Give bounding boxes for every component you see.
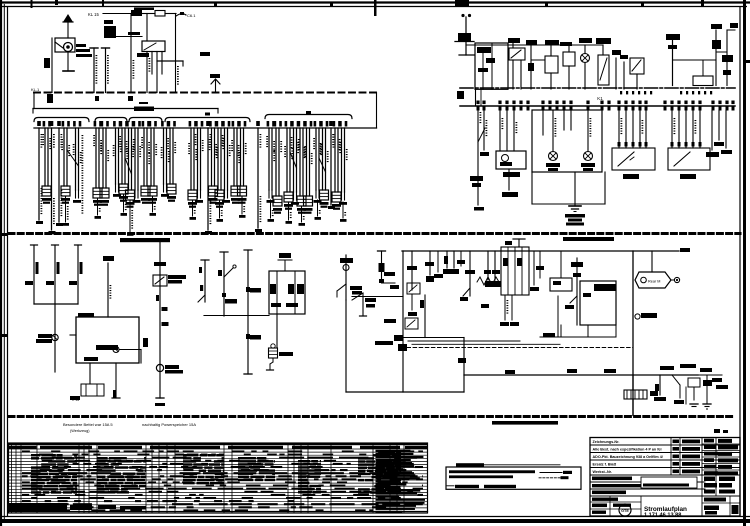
svg-text:nachhaltig Powerspeicher 15A: nachhaltig Powerspeicher 15A (142, 422, 196, 427)
wire A1 drop to bus (51, 38, 53, 93)
table column line (300, 443, 302, 513)
wire harness pair P6 (113, 121, 116, 127)
pin tick (664, 106, 667, 111)
table column line (20, 443, 22, 513)
pin tick (506, 106, 509, 111)
Q1 labels (350, 286, 362, 290)
B2 top tee (513, 238, 525, 240)
module K1 bottom pin rail (460, 105, 735, 107)
node A B feed dots (461, 14, 464, 17)
separator dashed line (bottom) (9, 415, 733, 418)
pin tick (685, 106, 688, 111)
wire harness pair P19 (232, 121, 235, 127)
vertical main right x633 (632, 251, 634, 415)
wire harness pair P10 (142, 121, 145, 127)
svg-text:Ersatz f. Blatt: Ersatz f. Blatt (593, 463, 617, 467)
relay box A3 (269, 271, 305, 314)
table column line (231, 443, 233, 513)
wire from A2 right to down (119, 349, 141, 351)
title block column lines (670, 438, 672, 476)
table column line (88, 443, 90, 513)
lamp H3 (549, 152, 558, 161)
table column line (396, 443, 398, 513)
wire A drop (465, 17, 467, 41)
wire rail to motor (651, 251, 653, 272)
wire vertical feed x131 (130, 14, 132, 93)
B2 bottom wires down (504, 295, 506, 320)
wire harness single S2 (50, 121, 54, 126)
wire harness pair P25 (298, 121, 301, 127)
pin tick (477, 106, 480, 111)
wire continuation P30 (342, 202, 344, 218)
switch S21 (223, 252, 225, 316)
second transistor Q2 (424, 295, 426, 338)
ticks below top rail (620, 91, 622, 94)
wire harness pair P23 (285, 121, 288, 127)
svg-text:ADO-Pkt. Bauzeichnung 938 a Oe: ADO-Pkt. Bauzeichnung 938 a Oelfilm 4/ (593, 455, 663, 459)
parts list table (9, 443, 428, 513)
wire continuation P23 (288, 202, 290, 220)
pin tick (483, 106, 486, 111)
resistor zigzag R20 (477, 277, 499, 285)
distribution rail Zuendung (33, 108, 218, 110)
table column line (307, 443, 309, 513)
pin tick (527, 106, 530, 111)
lamp H2 (581, 54, 590, 63)
S22 wire end tee (244, 373, 252, 375)
wire link diag 1 (67, 150, 79, 166)
svg-text:(Werkzeug): (Werkzeug) (70, 429, 90, 433)
connector on P8 (126, 190, 135, 200)
wire harness pair P11 (149, 121, 152, 127)
connector group bracket 1 (34, 118, 89, 122)
wire bus right edge (376, 93, 378, 129)
table column line (403, 443, 405, 513)
note text right (492, 421, 558, 425)
dashed wire (sensor line) (407, 347, 633, 349)
legend box (446, 467, 581, 489)
horizontal feed wire top right (466, 44, 603, 46)
rail bottom line (34, 127, 377, 129)
wires below B3 loop (560, 325, 562, 337)
title block mid cells text (673, 440, 680, 444)
switch S21a at T1 bottom (198, 295, 205, 302)
table column line (389, 443, 391, 513)
wire bundle b2 (412, 343, 560, 345)
module K1 top rail (dash-dot) (460, 87, 735, 89)
wire tails P21 (268, 190, 270, 198)
wire harness pair P15 (195, 121, 198, 127)
component S9 (715, 30, 717, 86)
diode V5 (703, 380, 712, 386)
pin tick (732, 106, 735, 111)
wire continuation P25 (301, 206, 303, 222)
component cluster N1 (615, 58, 617, 89)
wire tails P18 (224, 190, 226, 198)
connector circle X12 (52, 334, 58, 340)
svg-text:K1: K1 (597, 96, 603, 101)
wire harness pair P20 (238, 121, 241, 127)
component R5 (693, 76, 713, 86)
pin tick (639, 106, 642, 111)
relay on loop left (405, 318, 418, 329)
wire x633 lower tail (632, 399, 634, 416)
rail drop d5 pair (487, 251, 489, 280)
wire tails P30 (341, 192, 343, 200)
table column line (78, 443, 80, 513)
ground G2 (703, 403, 711, 405)
wire S1 down to terminal bar (67, 52, 69, 71)
pin tick (719, 106, 722, 111)
sub-box K6 with two lamps (532, 110, 602, 172)
wire top rail to module (465, 42, 467, 56)
junction fuse F5 (458, 33, 471, 42)
switch S30 (463, 288, 470, 296)
labels near dashed start (384, 319, 396, 323)
wire drop right third (725, 110, 727, 148)
wire harness pair P17 (216, 121, 219, 127)
pin tick (513, 106, 516, 111)
loop box top edge (403, 337, 464, 339)
pin tick (699, 106, 702, 111)
separator dashed line (middle) (9, 232, 740, 235)
resistor R2 (545, 56, 558, 73)
horizontal wire into dashed (540, 336, 561, 338)
label ABC/ABS (120, 238, 170, 242)
connector group bracket 2 (95, 118, 127, 122)
title block right column rows (702, 443, 740, 445)
pin tick (645, 106, 648, 111)
connector on P10 (141, 186, 150, 196)
wire harness pair P18 (222, 121, 225, 127)
sub-box with lamps B (496, 151, 526, 169)
wire continuation P2 (65, 196, 67, 222)
title block frame (590, 438, 740, 517)
switch S7 tall (598, 55, 609, 85)
svg-text:Werkst.-Nr.: Werkst.-Nr. (593, 470, 612, 474)
coil symbol (444, 256, 448, 264)
terminal 30 wire (727, 29, 735, 31)
table column line (83, 443, 85, 513)
outer box around B3 bottom (557, 296, 559, 337)
long return wire bottom loop (345, 300, 347, 392)
pin tick (601, 106, 604, 111)
hatched connector X30 (624, 390, 647, 399)
table column line (330, 443, 332, 513)
component chain left of B3 (576, 258, 578, 325)
module K1 left edge (475, 88, 477, 106)
rail drop d3 group (446, 251, 448, 268)
wire harness pair P12 (161, 121, 164, 127)
connector on P25 (297, 196, 306, 206)
wire harness single S3 (57, 121, 61, 126)
table column line (293, 443, 295, 513)
pin tick (542, 106, 545, 111)
pin tick (625, 106, 628, 111)
wire tails P9 (134, 190, 136, 198)
S20 wire end (156, 397, 164, 399)
wire drop right pair (711, 110, 713, 150)
wire harness pair P22 (274, 121, 277, 127)
pin tick (618, 106, 621, 111)
connector circle on A2 right (113, 347, 119, 353)
wire stub T1 (204, 260, 206, 302)
connector C2 (104, 26, 116, 38)
rail drop d1 (411, 251, 413, 290)
wires into X19 (671, 110, 673, 148)
white field (641, 477, 697, 488)
svg-text:Besondere Bettel war 15A 5: Besondere Bettel war 15A 5 (63, 422, 113, 427)
control unit box A2 (6302.1) (76, 317, 139, 363)
relay K5 (630, 58, 644, 74)
wire KA line x248 (247, 250, 249, 374)
table column line (11, 443, 13, 513)
connector on P20 (238, 186, 247, 196)
A3 top feed (284, 260, 286, 271)
wire continuation P20 (241, 196, 243, 214)
connector on P1 (42, 186, 51, 196)
wires into X18 (618, 110, 620, 148)
title block middle rows (590, 481, 705, 483)
wire harness pair P4 (94, 121, 97, 127)
wire harness single S6 (329, 121, 333, 126)
pin tick (520, 106, 523, 111)
extra rail drops (437, 251, 439, 272)
label KL.30 (200, 52, 210, 56)
bottom rail right section (464, 374, 698, 376)
wire trailing right (698, 374, 722, 376)
table column line (36, 443, 38, 513)
motor tip circle (674, 277, 679, 282)
connector on P26 (304, 196, 313, 206)
fuse F1 (131, 10, 142, 16)
drops right of B2 (533, 251, 535, 285)
X2A tail (272, 358, 274, 362)
wire continuation P21 (270, 200, 272, 218)
wire harness pair P28 (320, 121, 323, 127)
connector on P14 (188, 190, 197, 200)
wire tails P12 (163, 184, 165, 192)
junction B (95, 96, 99, 101)
motor M10 oval (635, 272, 671, 288)
wire link diag 4 (319, 158, 326, 172)
table dense block 1 (31, 454, 40, 456)
ignition switch S1 (55, 38, 75, 52)
wire continuation P8 (129, 200, 131, 232)
svg-text:C6.1: C6.1 (187, 13, 196, 18)
table column line (223, 443, 225, 513)
connector on P2 (61, 186, 70, 196)
component box U3 (563, 52, 575, 66)
connector on P4 (93, 188, 102, 198)
pin tick (678, 106, 681, 111)
connector on P16 (209, 186, 218, 196)
relay small K9 (688, 378, 700, 387)
wire C2 to relay K2 (116, 36, 142, 38)
right bottom cells (702, 502, 740, 504)
wire harness pair P16 (209, 121, 212, 127)
horizontal mid wire row (y296) (352, 296, 403, 298)
wire link at y315 (204, 315, 269, 317)
connector on P29 (332, 192, 341, 202)
svg-text:X 16: X 16 (72, 398, 79, 402)
wire continuation P14 (192, 200, 194, 216)
connector group bracket 5 (265, 115, 352, 119)
dashed box X16 (81, 384, 104, 396)
wire tails P6 (115, 184, 117, 192)
resistor R10 (33, 245, 35, 304)
connector on P19 (231, 186, 240, 196)
wire branch x363 (352, 293, 363, 300)
wire tails P15 (197, 190, 199, 198)
table column line (174, 443, 176, 513)
feed stub x381 with coil (381, 251, 383, 281)
labels bottom right cluster (660, 366, 674, 370)
pin tick (556, 106, 559, 111)
svg-text:Zeichnungs-Nr.: Zeichnungs-Nr. (593, 440, 620, 444)
svg-text:KL.1: KL.1 (31, 87, 40, 92)
pin tick (587, 106, 590, 111)
connector X2A (269, 348, 278, 358)
component cluster bottom right (659, 375, 661, 395)
pin tick (608, 106, 611, 111)
wire link horiz (673, 59, 717, 61)
wire continuation P17 (219, 200, 221, 218)
table column line (145, 443, 147, 513)
Rear 1 connector (635, 314, 640, 319)
wires inside K6 (542, 110, 544, 135)
fuse F2 (155, 11, 165, 17)
dashed connector box X18 (612, 148, 655, 170)
wire harness pair P30 (339, 121, 342, 127)
pin tick (671, 106, 674, 111)
dashed connector box X19 (668, 148, 710, 170)
connector group bracket 3 (129, 118, 162, 122)
wire harness pair P21 (267, 121, 270, 127)
svg-text:1 171 46 13 88: 1 171 46 13 88 (644, 512, 681, 518)
relay K8 (407, 283, 420, 294)
diode V2 (726, 30, 728, 86)
wire relay pins down to bus (146, 52, 148, 93)
+UB feed wire (107, 263, 109, 317)
table column line (158, 443, 160, 513)
pressure switch S20 (159, 240, 161, 398)
ground symbol (569, 205, 581, 207)
wire branch from relay to x175 (157, 60, 183, 62)
wire tails P3 (75, 190, 77, 198)
pin tick (563, 106, 566, 111)
wire harness pair P5 (101, 121, 104, 127)
relay K4 (509, 48, 525, 60)
node A6 stub (215, 80, 217, 93)
small marks above title block (714, 429, 720, 433)
connector group bracket 4 (165, 118, 250, 122)
wire S1 up to terminal arrow (67, 22, 69, 38)
wire harness pair P14 (189, 121, 192, 127)
connector on P11 (148, 186, 157, 196)
wire harness pair P24 (291, 121, 294, 127)
relay box K10 (550, 278, 572, 291)
wire drop to arrow (508, 169, 510, 190)
wire bus left stub (33, 93, 35, 109)
table column line (166, 443, 168, 513)
wire A2 bottom 2 (115, 363, 117, 398)
wire continuation P27 (317, 200, 319, 216)
connector on P13 (167, 184, 176, 194)
wire joining resistors (34, 303, 78, 305)
wire from A3 down to X2A (276, 314, 278, 347)
wire bundle b1 (408, 340, 520, 342)
wire harness single S1 (37, 121, 41, 126)
label right section (563, 237, 614, 241)
switch S40 (672, 375, 680, 385)
component S6 (530, 45, 532, 89)
wire continuation P4 (97, 198, 99, 215)
long vertical right of K6 (604, 172, 606, 204)
junction at x131 (128, 96, 133, 101)
module top-left box K3 (475, 43, 508, 89)
wire tails P27 (315, 190, 317, 198)
title block bottom dividers (609, 496, 611, 516)
wire harness pair P2 (62, 121, 65, 127)
wire to node C6.1 (176, 14, 186, 16)
marks along S20 wire (156, 295, 159, 301)
connector circle M5 (156, 364, 163, 371)
wire harness single S4 (206, 121, 210, 126)
wire drop G1b (483, 110, 485, 150)
rail drop d2 (429, 251, 431, 275)
wire link diag 3 (290, 152, 297, 168)
pin tick (549, 106, 552, 111)
wire relay pin up (146, 14, 148, 42)
wire vertical feed x175 (175, 14, 177, 93)
svg-text:KL 15: KL 15 (88, 12, 99, 17)
pin tick (499, 106, 502, 111)
loop box left edge full (402, 251, 404, 392)
connector on P28 (320, 190, 329, 200)
lamp H4 (584, 152, 593, 161)
table column line (15, 443, 17, 513)
wire harness single S5 (256, 121, 260, 126)
resistor R11 (54, 245, 56, 304)
pin tick (692, 106, 695, 111)
wire harness pair P13 (168, 121, 171, 127)
table column line (151, 443, 153, 513)
wire drop to X30 (632, 375, 634, 390)
motor feed wire M2 (672, 40, 674, 86)
transistor Q1 cluster left (345, 255, 347, 300)
pin tick (570, 106, 573, 111)
resistor R12 (77, 245, 79, 304)
pin tick (632, 106, 635, 111)
svg-text:Alle Best. nach espezifikation: Alle Best. nach espezifikation 4 P an fe… (593, 448, 662, 452)
connector on P7 (119, 184, 128, 194)
wire harness pair P9 (133, 121, 136, 127)
wire harness pair P8 (126, 121, 129, 127)
wire link diag 2 (125, 158, 132, 174)
top rail 24V (402, 250, 679, 252)
wire below K6 to ground (574, 172, 576, 206)
relay K2 (142, 41, 165, 52)
rail drop d4 (469, 251, 471, 296)
svg-text:Rear M: Rear M (648, 280, 660, 284)
table column line (96, 443, 98, 513)
table column line (372, 443, 374, 513)
loop box right (463, 338, 465, 393)
wire harness pair P26 (304, 121, 307, 127)
wire harness pair P7 (120, 121, 123, 127)
connector on P22 (273, 196, 282, 206)
